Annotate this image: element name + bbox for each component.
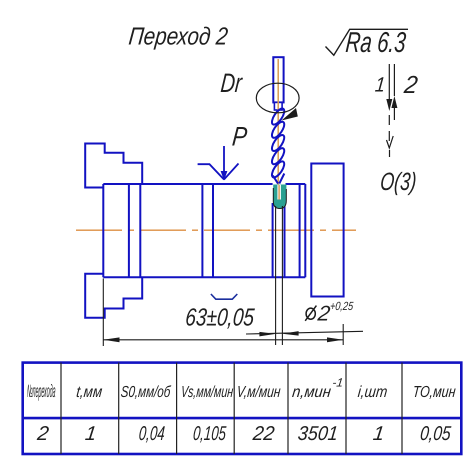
svg-text:i,шт: i,шт — [357, 384, 388, 401]
svg-text:0,04: 0,04 — [138, 422, 166, 444]
drill axis orange line — [277, 59, 279, 199]
svg-text:№перехода: №перехода — [27, 381, 56, 401]
chuck jaw top — [85, 144, 142, 188]
svg-text:Переход 2: Переход 2 — [127, 22, 229, 50]
dim arrow right — [327, 337, 343, 342]
svg-text:3501: 3501 — [297, 423, 339, 445]
hole boss right line — [284, 203, 286, 278]
drill point inside hole — [277, 185, 281, 200]
svg-text:О(3): О(3) — [379, 167, 418, 196]
dimension line 63 — [103, 339, 343, 341]
cycle line 2 (with up arrow) — [393, 64, 395, 120]
cycle arrow up (movement 2) — [391, 96, 397, 108]
drill neck — [274, 102, 282, 110]
tailstock support block — [311, 164, 343, 297]
svg-text:63±0,05: 63±0,05 — [184, 303, 256, 331]
dimension line dia2 — [246, 331, 363, 334]
svg-text:1: 1 — [84, 423, 98, 445]
table outer border — [23, 363, 462, 454]
shoulder step — [139, 184, 141, 277]
groove right edge — [212, 184, 214, 277]
cycle arrow down (movement 1) — [386, 99, 392, 111]
svg-text:Vs,мм/мин: Vs,мм/мин — [180, 383, 234, 401]
wavy section mark — [211, 294, 237, 299]
roughness symbol check mark — [326, 29, 409, 55]
svg-text:P: P — [231, 123, 249, 153]
extension line left face — [102, 279, 104, 347]
svg-text:V,м/мин: V,м/мин — [236, 383, 281, 401]
chuck jaw bottom — [85, 274, 142, 318]
svg-text:22: 22 — [251, 423, 276, 445]
table column lines — [61, 363, 402, 454]
svg-text:-1: -1 — [332, 376, 344, 390]
shaft right step — [299, 184, 301, 277]
extension line hole left — [275, 206, 277, 345]
svg-text:Dr: Dr — [219, 69, 244, 98]
drill shank — [273, 57, 283, 102]
svg-text:n,мин: n,мин — [291, 384, 332, 402]
dim arrow left — [103, 337, 119, 342]
extension line right — [342, 324, 344, 345]
cycle line 1 (solid with down arrow) — [388, 64, 390, 157]
clamp arrow P — [198, 146, 239, 180]
svg-text:2: 2 — [402, 71, 420, 99]
table middle divider — [23, 417, 462, 420]
drill flutes (spiral) — [270, 107, 287, 180]
flange right step — [128, 184, 130, 277]
cycle open arrow — [387, 136, 394, 148]
rotation ellipse Dr — [256, 83, 299, 113]
svg-text:0,105: 0,105 — [192, 422, 227, 444]
drill tip converging — [273, 174, 285, 184]
groove left edge — [201, 184, 203, 277]
extension line hole right — [281, 206, 283, 345]
svg-text:Ra 6.3: Ra 6.3 — [344, 26, 407, 58]
hole boss left line — [272, 203, 274, 278]
svg-text:0,05: 0,05 — [419, 422, 453, 444]
svg-text:S0,мм/об: S0,мм/об — [120, 382, 172, 400]
workpiece left face — [102, 184, 104, 277]
shaft right face — [304, 184, 306, 277]
svg-text:+0,25: +0,25 — [329, 300, 353, 313]
svg-text:t,мм: t,мм — [75, 384, 102, 401]
svg-text:1: 1 — [374, 73, 386, 97]
svg-text:2: 2 — [35, 423, 50, 445]
machined hole teal blob — [273, 185, 286, 209]
workpiece top edge — [103, 183, 305, 185]
rotation arrowhead — [282, 108, 298, 121]
diameter symbol — [305, 306, 316, 321]
dia2 arrow pointing left — [282, 331, 298, 336]
centerline of part — [76, 229, 356, 231]
svg-text:ТО,мин: ТО,мин — [412, 384, 457, 402]
workpiece bottom edge — [103, 276, 305, 278]
dia2 arrow pointing right — [259, 332, 275, 337]
svg-text:1: 1 — [372, 423, 386, 445]
